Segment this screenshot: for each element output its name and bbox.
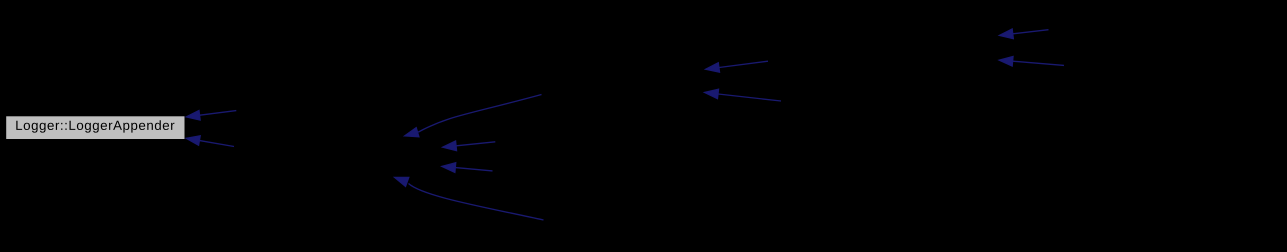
inheritance edge E7 (right middle, upper) [705, 61, 768, 72]
inheritance edge E5 (short, middle) [442, 163, 493, 173]
inheritance edge E8 (right middle, lower) [704, 89, 781, 101]
inheritance edge E9 (far right, upper) [999, 29, 1049, 39]
inheritance edge E2 into LoggerAppender (lower) [186, 136, 234, 147]
node Logger::LoggerAppender (current class, grey filled box) [6, 116, 184, 139]
inheritance edge E1 into LoggerAppender (upper) [186, 110, 237, 120]
inheritance edge E4 (short, middle) [442, 141, 495, 151]
inheritance edge E6 (long curved, lower middle) [394, 177, 543, 220]
inheritance edge E3 (long curved, upper middle) [404, 95, 541, 138]
inheritance edge E10 (far right, lower) [999, 56, 1064, 66]
